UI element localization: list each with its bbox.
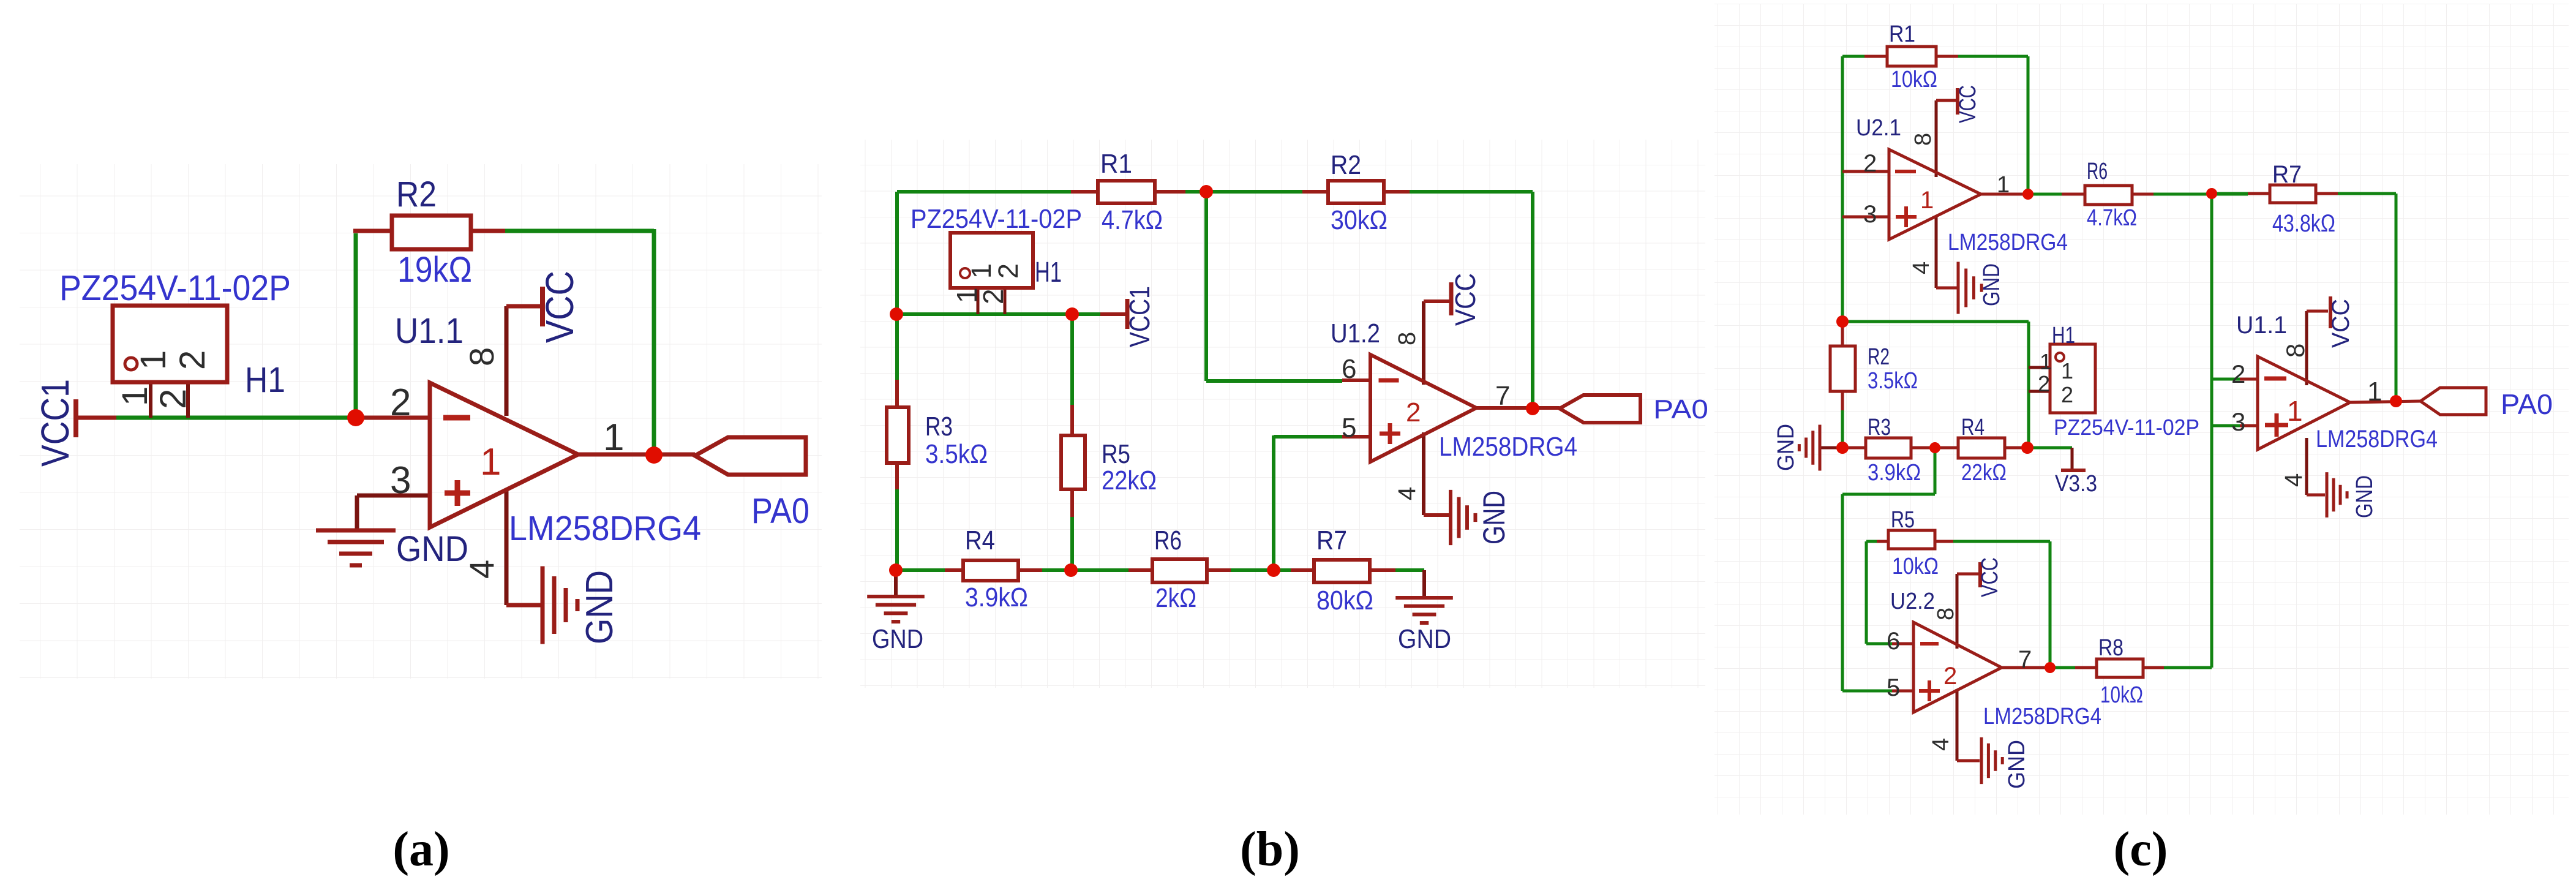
svg-text:30kΩ: 30kΩ <box>1331 205 1388 235</box>
svg-text:U2.1: U2.1 <box>1856 115 1901 141</box>
svg-text:PZ254V-11-02P: PZ254V-11-02P <box>59 268 291 308</box>
svg-text:4: 4 <box>1394 487 1421 500</box>
svg-text:(c): (c) <box>2114 823 2168 876</box>
svg-text:H1: H1 <box>245 360 285 400</box>
svg-text:8: 8 <box>1394 332 1421 345</box>
svg-text:1: 1 <box>2367 377 2382 407</box>
svg-text:6: 6 <box>1342 354 1356 384</box>
svg-text:1: 1 <box>480 441 501 483</box>
svg-text:3.9kΩ: 3.9kΩ <box>965 582 1028 612</box>
svg-text:VCC: VCC <box>538 271 582 343</box>
svg-text:GND: GND <box>872 624 923 654</box>
svg-text:10kΩ: 10kΩ <box>1892 554 1939 579</box>
svg-text:2: 2 <box>390 382 411 424</box>
svg-text:4: 4 <box>462 560 501 579</box>
svg-text:PZ254V-11-02P: PZ254V-11-02P <box>911 204 1082 234</box>
svg-text:GND: GND <box>1477 491 1511 544</box>
svg-text:(b): (b) <box>1240 823 1300 876</box>
svg-text:8: 8 <box>1933 608 1959 620</box>
svg-text:3.9kΩ: 3.9kΩ <box>1868 460 1921 486</box>
svg-text:7: 7 <box>1495 381 1510 411</box>
svg-text:2: 2 <box>1863 150 1877 177</box>
svg-text:GND: GND <box>2004 740 2030 789</box>
svg-text:1: 1 <box>603 416 624 459</box>
svg-text:PA0: PA0 <box>2501 388 2553 420</box>
svg-text:LM258DRG4: LM258DRG4 <box>509 509 701 548</box>
svg-text:U2.2: U2.2 <box>1890 589 1935 614</box>
svg-text:1: 1 <box>115 386 155 406</box>
svg-text:R1: R1 <box>1100 149 1132 179</box>
svg-text:PZ254V-11-02P: PZ254V-11-02P <box>2054 415 2199 440</box>
svg-text:1: 1 <box>2287 395 2303 427</box>
svg-text:R1: R1 <box>1889 21 1915 47</box>
svg-text:43.8kΩ: 43.8kΩ <box>2272 210 2335 237</box>
svg-text:R2: R2 <box>1331 150 1361 180</box>
svg-text:2: 2 <box>977 288 1009 304</box>
svg-text:LM258DRG4: LM258DRG4 <box>1439 432 1577 462</box>
svg-text:5: 5 <box>1342 413 1356 443</box>
svg-text:3.5kΩ: 3.5kΩ <box>925 439 988 469</box>
svg-text:GND: GND <box>2352 475 2378 518</box>
svg-text:R6: R6 <box>2087 159 2108 184</box>
svg-text:3: 3 <box>2231 407 2245 436</box>
svg-text:3.5kΩ: 3.5kΩ <box>1868 368 1918 394</box>
svg-text:R7: R7 <box>1316 525 1347 555</box>
svg-text:U1.1: U1.1 <box>2236 312 2287 339</box>
svg-text:2: 2 <box>2038 371 2050 396</box>
svg-text:8: 8 <box>1910 133 1936 146</box>
svg-text:GND: GND <box>1398 624 1451 654</box>
svg-text:LM258DRG4: LM258DRG4 <box>2316 426 2438 453</box>
svg-text:(a): (a) <box>392 823 449 876</box>
svg-text:2: 2 <box>2231 360 2245 388</box>
svg-text:PA0: PA0 <box>1653 394 1708 424</box>
svg-text:U1.2: U1.2 <box>1331 318 1380 348</box>
svg-text:R5: R5 <box>1102 439 1130 469</box>
svg-text:4.7kΩ: 4.7kΩ <box>1102 205 1163 235</box>
svg-text:5: 5 <box>1887 674 1900 701</box>
svg-text:VCC1: VCC1 <box>33 379 77 467</box>
svg-text:3: 3 <box>390 459 411 502</box>
svg-text:PA0: PA0 <box>751 491 809 531</box>
svg-text:LM258DRG4: LM258DRG4 <box>1983 704 2101 729</box>
svg-text:H1: H1 <box>2052 323 2075 348</box>
svg-text:1: 1 <box>1920 187 1934 214</box>
svg-text:2kΩ: 2kΩ <box>1155 583 1196 613</box>
svg-text:2: 2 <box>152 389 193 409</box>
svg-text:8: 8 <box>2281 344 2310 358</box>
svg-text:V3.3: V3.3 <box>2055 471 2097 497</box>
svg-text:7: 7 <box>2018 646 2032 673</box>
svg-text:VCC: VCC <box>1955 85 1981 123</box>
svg-text:R2: R2 <box>1868 344 1890 370</box>
svg-text:R3: R3 <box>925 412 953 442</box>
svg-text:LM258DRG4: LM258DRG4 <box>1948 230 2068 255</box>
svg-text:8: 8 <box>462 347 501 366</box>
svg-text:U1.1: U1.1 <box>395 311 464 351</box>
svg-text:4: 4 <box>1928 738 1954 751</box>
svg-text:R5: R5 <box>1891 507 1915 533</box>
svg-text:10kΩ: 10kΩ <box>2100 682 2143 708</box>
svg-text:10kΩ: 10kΩ <box>1891 67 1937 92</box>
svg-text:6: 6 <box>1887 628 1900 655</box>
svg-text:R3: R3 <box>1868 415 1891 440</box>
svg-text:VCC: VCC <box>1977 557 2003 597</box>
svg-text:R7: R7 <box>2272 161 2302 188</box>
svg-text:R8: R8 <box>2098 635 2124 661</box>
svg-text:R4: R4 <box>965 525 995 555</box>
svg-text:1: 1 <box>2040 349 2052 374</box>
svg-text:VCC: VCC <box>1449 273 1481 326</box>
svg-text:22kΩ: 22kΩ <box>1102 465 1157 495</box>
svg-text:GND: GND <box>1773 424 1799 471</box>
svg-text:VCC: VCC <box>2327 299 2354 348</box>
svg-text:2: 2 <box>993 263 1024 279</box>
svg-text:GND: GND <box>579 570 621 644</box>
svg-text:2: 2 <box>1943 663 1957 690</box>
svg-text:4.7kΩ: 4.7kΩ <box>2087 205 2137 231</box>
svg-text:2: 2 <box>2061 382 2073 407</box>
svg-text:GND: GND <box>1979 263 2005 306</box>
svg-text:VCC1: VCC1 <box>1124 286 1155 347</box>
svg-text:H1: H1 <box>1035 256 1062 288</box>
svg-text:1: 1 <box>133 350 173 370</box>
svg-text:1: 1 <box>2061 358 2073 383</box>
svg-text:2: 2 <box>173 350 212 370</box>
svg-text:R6: R6 <box>1154 525 1182 555</box>
svg-text:GND: GND <box>396 529 468 569</box>
svg-text:22kΩ: 22kΩ <box>1961 460 2007 486</box>
svg-text:R2: R2 <box>396 175 437 214</box>
svg-text:1: 1 <box>1997 172 2010 198</box>
svg-text:R4: R4 <box>1961 415 1985 440</box>
svg-text:4: 4 <box>2280 473 2307 487</box>
svg-text:3: 3 <box>1863 201 1877 228</box>
svg-text:80kΩ: 80kΩ <box>1316 586 1373 616</box>
svg-text:2: 2 <box>1406 397 1421 427</box>
svg-text:4: 4 <box>1909 262 1934 274</box>
svg-text:19kΩ: 19kΩ <box>397 250 472 290</box>
